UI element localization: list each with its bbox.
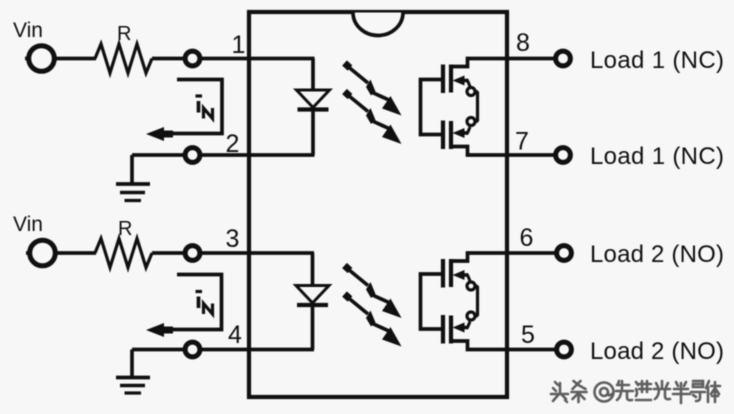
svg-text:Load 2 (NO): Load 2 (NO) [590,338,724,365]
wire R1 to pin 1 (into package, to LED anode) [152,57,315,61]
light arrows channel 2 [345,266,402,347]
svg-text:Vin: Vin [13,213,43,236]
pin 8 [516,29,530,57]
wire pin 8 [505,57,554,61]
current loop iF (input 2) [146,275,222,338]
node circle on pin 4 wire [185,342,200,357]
MOSFET pair U1 (pins 8/7) [421,59,508,156]
svg-text:Vin: Vin [13,19,43,42]
terminal Vin2 [26,240,55,266]
terminal pin 5 [557,342,572,357]
label Load 1 (NC) upper [590,47,724,74]
svg-text:Load 2 (NO): Load 2 (NO) [590,241,724,268]
resistor R2 [95,218,152,268]
LED D2 [296,253,329,350]
svg-text:6: 6 [520,224,534,252]
导 [691,381,705,401]
svg-text:4: 4 [228,321,242,349]
label iF (input 1) [196,96,213,119]
label Load 2 (NO) upper [590,241,724,268]
svg-text:2: 2 [226,130,240,158]
条 [572,381,587,402]
node circle on pin 1 wire [185,51,200,66]
wire pin 4 (from ground riser through node into package to LED cathode) [132,348,314,352]
pin 4 [228,321,242,349]
label Load 1 (NC) lower [590,143,724,170]
LED D1 [297,59,330,156]
先 [616,381,633,400]
terminal pin 6 [557,246,572,261]
头 [551,382,568,402]
svg-text:R: R [117,23,131,45]
光 [654,381,670,399]
node circle on pin 2 wire [185,148,200,163]
wire pin 5 [505,348,555,352]
进 [636,381,651,400]
pin 6 [520,224,534,252]
MOSFET pair U2 (pins 6/5) [421,253,508,350]
label Load 2 (NO) lower [590,338,724,365]
light arrows channel 1 [345,63,402,144]
半 [673,382,690,403]
watermark 头条@先进光半导体 (hand-drawn strokes) [551,381,720,403]
@ [595,383,614,402]
wire R2 to pin 3 (into package, to LED anode) [152,251,314,255]
ground (input 1) [116,155,150,201]
label Vin (input 1) [13,19,43,42]
label iF (input 2) [196,292,213,315]
svg-text:1: 1 [232,31,246,59]
svg-text:5: 5 [521,321,535,349]
current loop iF (input 1) [146,80,222,142]
node circle on pin 3 wire [185,246,200,261]
IC package box [249,12,507,397]
pin 7 [515,128,529,156]
wire pin 6 [505,251,555,255]
svg-text:7: 7 [515,128,529,156]
ground (input 2) [116,350,150,394]
wire pin 2 (from ground riser through node into package to LED cathode) [132,153,315,157]
svg-text:R: R [118,218,132,240]
pin-1 notch [353,13,403,36]
体 [706,381,720,402]
terminal Vin1 [25,46,54,72]
terminal pin 7 [556,148,571,163]
svg-text:Load 1 (NC): Load 1 (NC) [590,47,724,74]
pin 1 [232,31,246,59]
terminal pin 8 [556,51,571,66]
svg-text:3: 3 [226,225,240,253]
svg-text:8: 8 [516,29,530,57]
wire Vin2 to R2 [55,251,96,255]
svg-text:Load 1 (NC): Load 1 (NC) [590,143,724,170]
pin 3 [226,225,240,253]
pin 5 [521,321,535,349]
resistor R1 [95,23,152,73]
wire pin 7 [505,153,554,157]
pin 2 [226,130,240,158]
wire Vin1 to R1 [54,57,96,61]
label Vin (input 2) [13,213,43,236]
